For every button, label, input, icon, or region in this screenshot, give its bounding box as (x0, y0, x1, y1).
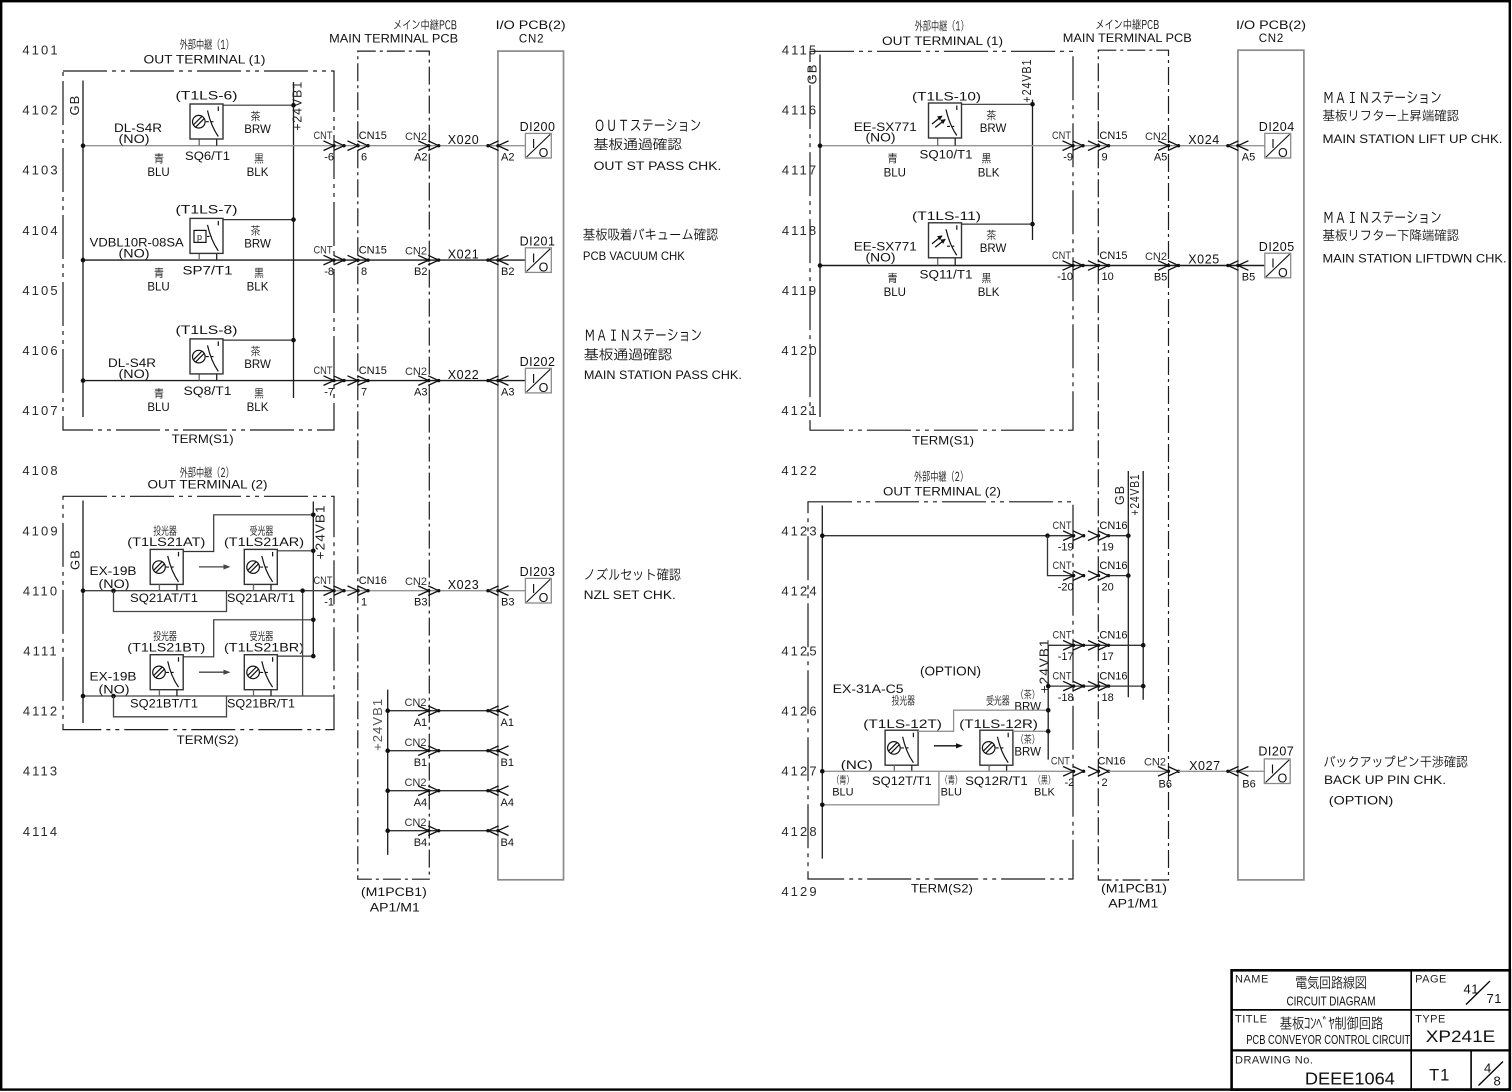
svg-text:2: 2 (1102, 777, 1108, 789)
svg-text:X024: X024 (1188, 133, 1220, 147)
svg-text:(T1LS21AR): (T1LS21AR) (224, 535, 304, 549)
svg-text:BLK: BLK (247, 167, 269, 179)
BRW wire transmitter 12T to +24VB1 (918, 708, 1050, 731)
annotation PCB vacuum check (583, 228, 718, 263)
connector CN16 pin 17 (1088, 630, 1128, 663)
wire row X024 from GB to DI box (820, 145, 1265, 147)
return loop wire SQ21BT/T1 (114, 696, 227, 717)
svg-text:CNT: CNT (1051, 756, 1070, 768)
connector CN2 pin B3 (left I/O PCB) (486, 586, 514, 609)
svg-text:9: 9 (1102, 151, 1108, 163)
svg-text:TERM(S2): TERM(S2) (911, 881, 973, 895)
svg-text:CNT: CNT (1052, 130, 1071, 142)
wire row X022 from GB to DI box (83, 380, 525, 382)
svg-text:BRW: BRW (980, 243, 1007, 255)
svg-text:B1: B1 (414, 757, 427, 769)
+24VB1 bus line (right OUT2) (1046, 645, 1051, 759)
photo sensor SQ10/T1 (T1LS-10) (929, 103, 962, 138)
connector CN16 pin 1 (left) (348, 575, 387, 608)
I/O input DI200 (520, 120, 556, 160)
wire color label BRW SQ11/T1 (980, 230, 1007, 255)
svg-text:SQ11/T1: SQ11/T1 (920, 270, 973, 282)
title block TYPE cell (1415, 1014, 1495, 1046)
connector CNT -1 (left OUT2) (314, 575, 346, 608)
svg-text:MAIN STATION LIFT UP CHK.: MAIN STATION LIFT UP CHK. (1323, 132, 1503, 146)
wire color (茶) BRW transmitter T1LS-12T (1014, 689, 1041, 713)
svg-text:MAIN TERMINAL PCB: MAIN TERMINAL PCB (1063, 33, 1192, 45)
svg-text:p: p (197, 232, 202, 242)
svg-text:A1: A1 (501, 717, 514, 729)
svg-text:CNT: CNT (1053, 560, 1072, 572)
svg-text:BLU: BLU (832, 786, 853, 798)
svg-text:4127: 4127 (781, 764, 818, 779)
label 外部中継(1) OUT TERMINAL (1) (right) (882, 20, 1003, 48)
transmitter box SQ21AT/T1 (150, 549, 183, 584)
svg-text:DI203: DI203 (520, 565, 556, 579)
wire row 4123 GB to CNT-19 (820, 533, 1074, 538)
svg-text:GB: GB (804, 64, 819, 85)
svg-text:DI204: DI204 (1259, 120, 1295, 134)
return loop wire row 4127 (820, 771, 939, 807)
svg-text:NAME: NAME (1235, 973, 1269, 985)
svg-text:(T1LS-12R): (T1LS-12R) (959, 717, 1038, 731)
svg-text:O: O (1278, 146, 1288, 160)
component name EE-SX771 (NO) SQ10/T1 (854, 122, 917, 145)
svg-text:OUT ST PASS CHK.: OUT ST PASS CHK. (594, 159, 722, 173)
connector CN2 pin A3 (left main terminal) (405, 366, 440, 399)
label SQ10/T1 terminal (920, 150, 973, 162)
svg-text:DRAWING No.: DRAWING No. (1235, 1055, 1313, 1067)
label TERM(S1) (right) (912, 433, 974, 447)
svg-text:MAIN STATION PASS CHK.: MAIN STATION PASS CHK. (584, 368, 742, 382)
component name DL-S4R (108, 358, 156, 381)
label SQ6/T1 terminal (185, 151, 230, 163)
title block NAME cell (1235, 973, 1376, 1008)
OUT TERMINAL (1) box (right) (810, 51, 1073, 430)
svg-text:OUT TERMINAL (2): OUT TERMINAL (2) (883, 485, 1001, 499)
receiver box SQ21BR/T1 (244, 655, 277, 690)
main terminal PCB box (left) (358, 51, 430, 879)
svg-text:CN2: CN2 (1144, 757, 1166, 769)
connector CN2 pin A2 (left I/O PCB) (486, 141, 514, 164)
annotation MAIN station lift down check (1323, 211, 1507, 265)
transmitter pins SQ12T (894, 765, 912, 771)
label (T1LS-6) (176, 88, 238, 102)
wire CN16-2 to CN2-B6 (1109, 770, 1169, 772)
label I/O PCB(2) CN2 (right) (1236, 18, 1306, 45)
label SQ21BT/T1 (130, 697, 198, 711)
svg-text:CNT: CNT (1053, 630, 1072, 642)
OUT TERMINAL (2) box (left) (63, 496, 334, 729)
svg-text:AP1/M1: AP1/M1 (1108, 898, 1158, 910)
svg-text:(NO): (NO) (866, 133, 896, 145)
svg-text:SQ10/T1: SQ10/T1 (920, 150, 973, 162)
svg-text:O: O (1278, 772, 1288, 786)
svg-text:TERM(S1): TERM(S1) (912, 433, 974, 447)
svg-text:DI207: DI207 (1258, 744, 1294, 758)
annotation OUT station pass check (594, 119, 722, 173)
svg-text:GB: GB (1113, 485, 1127, 505)
svg-text:EX-19B: EX-19B (90, 566, 137, 578)
wire row 4125 +24VB1 to CN16-17 (1048, 643, 1145, 648)
svg-text:B3: B3 (414, 597, 427, 609)
label (M1PCB1) AP1/M1 (left) (361, 887, 427, 915)
wire CN16-20 to GB bus (1109, 573, 1131, 578)
svg-text:(T1LS21BT): (T1LS21BT) (127, 640, 205, 654)
svg-text:A3: A3 (501, 387, 514, 399)
net label +24VB1 (right OUT2) (1037, 638, 1051, 693)
svg-text:4109: 4109 (22, 523, 59, 538)
labels 受光器 (T1LS21AR) receiver (224, 525, 304, 549)
svg-text:CN16: CN16 (1098, 756, 1126, 768)
receiver box SQ12R (T1LS-12R) (980, 730, 1013, 765)
wire color labels BLU/BLK SQ6/T1 (147, 153, 268, 179)
connector CNT -18 (1053, 671, 1086, 704)
svg-text:CN15: CN15 (1099, 130, 1127, 142)
svg-text:(T1LS-11): (T1LS-11) (912, 209, 981, 223)
sensor pins SQ6/T1 (199, 139, 217, 146)
svg-text:BLU: BLU (147, 282, 169, 294)
branch wire to CNT-20 (1048, 536, 1074, 576)
I/O PCB(2) CN2 box (right) (1238, 50, 1304, 880)
svg-text:CNT: CNT (1053, 520, 1072, 532)
labels 投光器 (T1LS21BT) transmitter (127, 631, 205, 655)
svg-text:BLK: BLK (247, 282, 269, 294)
svg-text:CN2: CN2 (404, 737, 426, 749)
svg-text:CN2: CN2 (1259, 33, 1284, 45)
connector CNT -10 (right) (1052, 250, 1085, 283)
svg-text:BRW: BRW (1014, 746, 1041, 758)
svg-text:CN2: CN2 (519, 33, 544, 45)
X023 signal wire to DI203 (334, 590, 525, 592)
labels 受光器 (T1LS21BR) receiver (224, 631, 304, 655)
svg-text:CN15: CN15 (359, 130, 387, 142)
svg-text:-8: -8 (324, 266, 334, 278)
svg-text:A2: A2 (501, 152, 514, 164)
label 外部中継(1) OUT TERMINAL (1) (left) (144, 39, 266, 67)
svg-text:EX-31A-C5: EX-31A-C5 (833, 684, 904, 696)
receiver pins SQ21AR/T1 (254, 584, 272, 590)
connector CN2 pin A2 (left main terminal) (405, 131, 440, 164)
title block T1 cell (1429, 1067, 1450, 1085)
svg-text:O: O (539, 261, 549, 275)
sensor pins SQ8/T1 (199, 374, 217, 381)
svg-text:CIRCUIT DIAGRAM: CIRCUIT DIAGRAM (1287, 995, 1376, 1009)
svg-text:CN2: CN2 (405, 245, 427, 257)
svg-text:18: 18 (1102, 692, 1114, 704)
BRW wire receiver SQ21BR/T1 to +24VB1 (278, 654, 316, 659)
connector CN2 pin B4 (left main terminal) (404, 817, 440, 849)
svg-text:CN15: CN15 (359, 365, 387, 377)
label SQ21AR/T1 (227, 591, 295, 605)
svg-text:SQ21AR/T1: SQ21AR/T1 (227, 591, 295, 605)
labels (T1LS-12T) (T1LS-12R) (863, 717, 1038, 731)
net label +24VB1 (left M1PCB) (371, 698, 385, 751)
svg-text:BRW: BRW (244, 359, 271, 371)
net label +24VB1 (left OUT2) (313, 504, 327, 559)
svg-text:4108: 4108 (22, 463, 59, 478)
svg-text:SQ12T/T1: SQ12T/T1 (872, 776, 932, 788)
svg-text:(T1LS21AT): (T1LS21AT) (127, 535, 205, 549)
svg-text:4124: 4124 (781, 583, 818, 598)
wire color label BRW SQ10/T1 (980, 110, 1007, 135)
svg-text:-7: -7 (324, 386, 334, 398)
svg-text:(T1LS-6): (T1LS-6) (176, 88, 238, 102)
label TERM(S2) (left) (177, 733, 239, 747)
svg-text:8: 8 (1494, 1074, 1501, 1089)
svg-text:SQ8/T1: SQ8/T1 (184, 386, 232, 398)
net label X024 (1188, 133, 1220, 147)
svg-text:-1: -1 (324, 596, 334, 608)
component name VDBL10R-08SA (90, 238, 184, 261)
net label GB (right main terminal) (1113, 485, 1127, 505)
junction GB SQ8/T1 (81, 378, 86, 383)
+24VB1 bus line (left M1PCB) (387, 690, 389, 855)
component name EX-31A-C5 (833, 684, 904, 696)
wire row X025 from GB to DI box (820, 265, 1265, 267)
connector CNT -19 (1053, 520, 1086, 553)
svg-text:(OPTION): (OPTION) (1329, 794, 1394, 808)
label (T1LS-8) (176, 323, 238, 337)
component name EX-19B (NO) B (90, 672, 137, 697)
labels 投光器 / 受光器 (option pair) (892, 695, 1010, 706)
svg-text:-17: -17 (1058, 651, 1074, 663)
connector CN2 pin A1 (left main terminal) (404, 697, 440, 729)
svg-text:CN2: CN2 (404, 817, 426, 829)
svg-text:-2: -2 (1065, 777, 1075, 789)
wire color labels BLU/BLK SQ11/T1 (884, 273, 1000, 299)
svg-text:A1: A1 (414, 717, 427, 729)
wire row X021 from GB to DI box (83, 259, 525, 261)
label メイン中継PCB / MAIN TERMINAL PCB (left) (329, 19, 458, 45)
GB bus line (right main terminal) (1127, 471, 1129, 697)
junction GB SQ6/T1 (81, 143, 86, 148)
receiver pins SQ12R (989, 765, 1007, 771)
+24VB1 feed wire CN2 pin B4 (385, 828, 498, 833)
svg-text:(NO): (NO) (119, 134, 150, 146)
svg-text:XP241E: XP241E (1426, 1028, 1496, 1046)
svg-text:B4: B4 (414, 837, 427, 849)
svg-text:CNT: CNT (314, 245, 333, 257)
svg-text:SQ21BT/T1: SQ21BT/T1 (130, 697, 198, 711)
connector CNT -7 (left) (314, 365, 346, 398)
label TERM(S1) (left) (172, 432, 234, 446)
svg-text:B2: B2 (501, 266, 514, 278)
svg-text:4107: 4107 (22, 403, 59, 418)
svg-text:CN16: CN16 (1099, 630, 1127, 642)
svg-text:A3: A3 (414, 387, 427, 399)
wire color label BRW SQ6/T1 (244, 111, 271, 136)
svg-text:PAGE: PAGE (1415, 973, 1447, 985)
limit switch SQ6/T1 (T1LS-6) (190, 104, 223, 139)
svg-text:4129: 4129 (781, 884, 818, 899)
svg-text:SQ21BR/T1: SQ21BR/T1 (227, 697, 295, 711)
annotation nozzle set check (584, 568, 681, 602)
svg-text:(T1LS-10): (T1LS-10) (912, 89, 981, 103)
svg-text:4114: 4114 (23, 824, 59, 839)
svg-text:O: O (539, 381, 549, 395)
transmitter box SQ21BT/T1 (150, 655, 183, 690)
svg-text:4126: 4126 (781, 704, 818, 719)
connector CN2 pin B5 (right I/O PCB) (1226, 261, 1255, 284)
svg-text:BRW: BRW (1014, 702, 1041, 714)
svg-text:BLK: BLK (1034, 786, 1055, 798)
net label X023 (448, 578, 480, 592)
svg-text:BACK UP PIN CHK.: BACK UP PIN CHK. (1324, 773, 1446, 787)
net label GB (left OUT1) (67, 95, 82, 116)
connector CN15 pin 10 (right) (1088, 250, 1128, 283)
BRW wire transmitter SQ21BT/T1 to +24VB1 (184, 618, 316, 657)
wire color (青) BLU between (941, 775, 962, 798)
svg-text:71: 71 (1487, 991, 1502, 1006)
BRW wire SQ10/T1 to +24VB1 (962, 102, 1035, 107)
sensor pins SP7/T1 (199, 253, 217, 260)
svg-text:+24VB1: +24VB1 (1020, 59, 1034, 103)
svg-text:8: 8 (361, 266, 367, 278)
I/O input DI205 (1259, 240, 1295, 280)
svg-text:4117: 4117 (782, 163, 818, 178)
I/O input DI202 (520, 355, 556, 395)
svg-text:CNT: CNT (314, 130, 333, 142)
net label X020 (448, 133, 480, 147)
label SQ21AT/T1 (130, 591, 198, 605)
svg-text:4112: 4112 (23, 704, 59, 719)
svg-text:BLU: BLU (884, 287, 906, 299)
svg-text:GB: GB (67, 95, 82, 116)
label SQ12R/T1 (965, 776, 1028, 788)
label TERM(S2) (right) (911, 881, 973, 895)
label (M1PCB1) AP1/M1 (right) (1101, 883, 1167, 910)
I/O input DI203 (520, 565, 556, 605)
svg-text:(NO): (NO) (866, 253, 896, 265)
svg-text:A4: A4 (414, 797, 427, 809)
svg-text:-10: -10 (1057, 271, 1073, 283)
transmitter pins SQ21BT/T1 (159, 690, 177, 696)
svg-text:PCB CONVEYOR CONTROL CIRCUIT: PCB CONVEYOR CONTROL CIRCUIT (1246, 1033, 1410, 1047)
transmitter box SQ12T (T1LS-12T) (885, 730, 918, 765)
svg-text:CN2: CN2 (404, 697, 426, 709)
svg-text:4128: 4128 (781, 824, 818, 839)
svg-text:X023: X023 (448, 578, 480, 592)
connector CNT -20 (1053, 560, 1086, 593)
svg-text:X025: X025 (1188, 253, 1220, 267)
svg-text:CN2: CN2 (1145, 251, 1167, 263)
connector CN15 pin 7 (left) (348, 365, 387, 398)
connector CNT -8 (left) (314, 245, 346, 278)
svg-text:BLK: BLK (978, 167, 1000, 179)
+24VB1 feed wire CN2 pin B1 (385, 748, 498, 753)
net label X021 (448, 247, 480, 261)
svg-text:-6: -6 (324, 151, 334, 163)
svg-text:TITLE: TITLE (1235, 1014, 1267, 1026)
connector CNT -17 (1053, 630, 1086, 663)
wire color (茶) BRW receiver T1LS-12R (1014, 734, 1041, 758)
connector CN2 pin B3 (left main terminal) (405, 576, 440, 609)
svg-text:B5: B5 (1154, 272, 1167, 284)
svg-text:O: O (1278, 266, 1288, 280)
svg-text:SQ12R/T1: SQ12R/T1 (965, 776, 1028, 788)
label (NC) (841, 760, 873, 772)
label SQ12T/T1 (872, 776, 932, 788)
GB bus line (left OUT1) (82, 81, 84, 418)
connector CN2 pin B1 (left I/O PCB) (486, 746, 514, 769)
label (T1LS-10) (912, 89, 981, 103)
+24VB1 bus line (right main terminal) (1142, 471, 1144, 700)
BRW wire SQ11/T1 to +24VB1 (962, 222, 1035, 227)
net label GB (left OUT2) (67, 549, 82, 570)
svg-text:(M1PCB1): (M1PCB1) (361, 887, 427, 899)
svg-text:CN16: CN16 (359, 575, 387, 587)
receiver pins SQ21BR/T1 (254, 690, 272, 696)
connector CN2 pin B5 (right main terminal) (1145, 251, 1180, 284)
svg-text:BRW: BRW (244, 238, 271, 250)
connector CN16 pin 2 (1088, 756, 1126, 789)
svg-text:17: 17 (1102, 651, 1114, 663)
net label +24VB1 (right OUT1) (1020, 59, 1034, 103)
svg-text:B6: B6 (1242, 778, 1255, 790)
title block PAGE cell (1415, 973, 1502, 1006)
svg-text:CN15: CN15 (359, 245, 387, 257)
label SQ8/T1 terminal (184, 386, 232, 398)
+24VB1 feed wire CN2 pin A4 (385, 788, 498, 793)
component name DL-S4R (114, 123, 162, 146)
wire row +24VB1 to CN16-18 (1048, 684, 1145, 689)
svg-text:TERM(S2): TERM(S2) (177, 733, 239, 747)
svg-text:AP1/M1: AP1/M1 (370, 903, 420, 915)
row number labels 4115-4129 (right) (781, 43, 818, 899)
svg-text:7: 7 (361, 386, 367, 398)
svg-text:(T1LS21BR): (T1LS21BR) (224, 640, 304, 654)
net label X027 (1189, 759, 1221, 773)
svg-text:4101: 4101 (22, 43, 59, 58)
junction GB SQ10/T1 (818, 143, 823, 148)
transmitter pins SQ21AT/T1 (159, 584, 177, 590)
svg-text:B3: B3 (501, 597, 514, 609)
BRW wire receiver 12R to +24VB1 (1013, 729, 1051, 734)
svg-text:CN2: CN2 (1145, 131, 1167, 143)
connector CN2 pin A5 (right main terminal) (1145, 131, 1180, 164)
receiver box SQ21AR/T1 (244, 549, 277, 584)
svg-text:A5: A5 (1242, 152, 1255, 164)
svg-text:CN16: CN16 (1099, 671, 1127, 683)
svg-text:BRW: BRW (980, 123, 1007, 135)
svg-text:B1: B1 (501, 757, 514, 769)
connector CN16 pin 20 (1088, 560, 1128, 593)
svg-text:BLK: BLK (247, 402, 269, 414)
svg-text:BLU: BLU (147, 402, 169, 414)
svg-text:4122: 4122 (781, 463, 818, 478)
sensor pins SQ10/T1 (938, 138, 956, 145)
svg-text:T1: T1 (1429, 1067, 1450, 1085)
svg-text:4120: 4120 (781, 343, 818, 358)
svg-text:SQ6/T1: SQ6/T1 (185, 151, 230, 163)
svg-text:(NO): (NO) (119, 369, 150, 381)
sensor pins SQ11/T1 (938, 258, 956, 265)
svg-text:BLU: BLU (147, 167, 169, 179)
+24VB1 bus line (left OUT1) (293, 82, 295, 398)
label I/O PCB(2) CN2 (left) (496, 18, 566, 45)
connector CN2 pin B2 (left main terminal) (405, 245, 440, 278)
svg-text:CN16: CN16 (1099, 560, 1127, 572)
+24VB1 feed wire CN2 pin A1 (385, 708, 498, 713)
main terminal PCB box (right) (1098, 50, 1168, 880)
title block sheet 4/8 cell (1479, 1061, 1504, 1089)
svg-text:CN16: CN16 (1099, 520, 1127, 532)
svg-text:B5: B5 (1242, 272, 1255, 284)
svg-text:OUT TERMINAL (1): OUT TERMINAL (1) (144, 53, 266, 67)
wire X027 to DI207 (1179, 770, 1265, 772)
GB bus line (right OUT2) (821, 506, 823, 859)
